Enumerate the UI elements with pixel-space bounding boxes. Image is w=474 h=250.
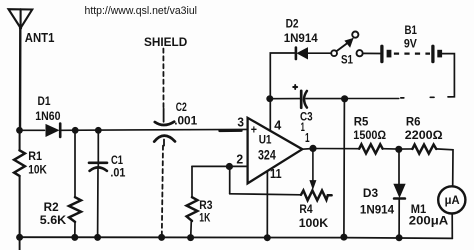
resistor R3 [187,166,198,237]
wire S1 to battery [363,52,381,54]
svg-text:R4: R4 [299,202,312,216]
wire C3 right to ground node [306,98,347,100]
wire pin4 node to C3 [270,98,300,100]
svg-text:R5: R5 [354,115,369,129]
wire left rail below D1 node to ground rail [19,130,21,150]
svg-text:10K: 10K [28,162,47,176]
node rail R3 [187,234,194,241]
svg-text:SHIELD: SHIELD [144,35,187,49]
battery B1 [382,46,442,61]
wire R3 top to pin2 node [192,165,229,167]
svg-text:C2: C2 [176,100,187,114]
node rail D3 [396,234,403,241]
antenna ANT1 [9,9,33,29]
wire stub below ground rail bottom-left [19,237,21,250]
potentiometer R4 [301,191,332,201]
ground rail [20,237,453,238]
wire pin4 up and right to D2 [270,53,295,131]
svg-text:.01: .01 [110,166,125,180]
svg-text:2: 2 [236,153,243,167]
wire antenna down left rail [19,28,22,130]
shield dashed line upper [162,49,164,109]
wire output arrow down to R4 [310,149,316,189]
op-amp U1 [248,118,303,184]
node C1 top junction [95,127,102,134]
wire output node to R5 [313,148,359,150]
node D1 left junction [16,127,23,134]
svg-text:5.6K: 5.6K [40,213,66,227]
svg-text:D2: D2 [286,16,299,30]
svg-text:4: 4 [274,119,281,133]
svg-text:B1: B1 [405,23,417,37]
svg-text:.001: .001 [174,114,197,128]
svg-text:200μA: 200μA [409,214,448,228]
wire D2 to S1 [308,52,332,54]
diode D3 [394,149,405,237]
diode D1 [46,124,60,137]
wire signal row from antenna node to op-amp +input [20,129,45,131]
svg-text:+: + [251,124,257,136]
svg-text:D1: D1 [38,94,51,108]
node pin4 / C3 junction [266,95,273,102]
resistor R2 [69,197,81,222]
wire pin2 into op-amp [229,165,247,167]
svg-text:2200Ω: 2200Ω [405,128,443,142]
svg-text:1N914: 1N914 [360,202,394,216]
node pin2 junction [226,163,233,170]
resistor R6 [399,148,413,150]
capacitor C2 [154,109,175,146]
shield dashed line lower [162,146,163,237]
wire R2 bottom lead [74,222,76,238]
svg-text:1: 1 [301,120,305,134]
svg-text:R1: R1 [28,149,42,163]
switch S1 [331,31,363,56]
svg-text:1500Ω: 1500Ω [353,128,386,142]
svg-text:http://www.qsl.net/va3iul: http://www.qsl.net/va3iul [85,5,198,17]
node rail left [16,234,23,241]
svg-text:3: 3 [237,115,244,129]
svg-text:1: 1 [305,131,310,145]
resistor R5 [359,144,382,153]
svg-text:ANT1: ANT1 [25,31,55,45]
wire R5 to node [383,148,399,150]
node rail pin11 [264,234,271,241]
svg-text:324: 324 [258,148,276,163]
svg-text:9V: 9V [404,36,418,50]
node C3 ground junction [341,95,348,102]
diode D2 [296,48,308,60]
url text [85,5,198,17]
wire battery right down to ground net [442,54,454,97]
wire pin2 node down-leg [229,167,231,194]
svg-text:R6: R6 [406,115,421,129]
wire meter bottom to rail [451,213,453,238]
wire R6 to meter [436,149,453,187]
svg-text:μA: μA [445,194,461,207]
meter M1 [438,186,465,213]
wire pin11 down to ground rail [266,171,268,238]
node rail C1 [94,234,101,241]
wire R2 top lead [74,130,76,197]
svg-text:11: 11 [270,167,282,181]
wire ground line down to rail [343,99,346,237]
wire output apex to node [302,148,313,151]
svg-text:1N914: 1N914 [284,31,318,45]
svg-text:100K: 100K [299,216,328,230]
node rail shield [158,234,165,241]
svg-text:1K: 1K [199,210,210,224]
node output pin1 junction [309,145,316,152]
node rail C3 ground [340,234,347,241]
svg-text:S1: S1 [341,53,353,67]
wire down-leg to R4 [230,194,301,195]
node R5/R6/D3 junction [395,146,402,153]
node rail R2 [71,234,78,241]
svg-text:U1: U1 [259,133,272,147]
resistor R1 [14,150,25,176]
svg-text:1N60: 1N60 [35,109,60,123]
capacitor C3 [293,85,307,108]
shield label [144,35,187,49]
node R2 top junction [72,127,79,134]
capacitor C1 [89,130,107,237]
svg-text:D3: D3 [363,186,378,200]
